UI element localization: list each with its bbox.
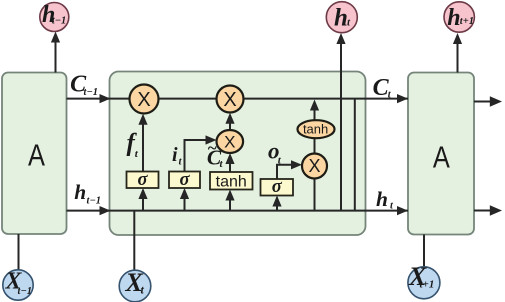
multiply node X2 (cell update) [217, 86, 244, 113]
wire h line up into sigma2 [180, 188, 189, 211]
tanh box (candidate) [210, 172, 253, 191]
node X(t) circle [119, 268, 151, 302]
label h(t-1) on wire [74, 180, 101, 207]
wire f gate: h line up into sigma1 [138, 188, 147, 211]
wire to h(t-1) output circle [51, 32, 60, 73]
multiply node X4 (output) [302, 154, 327, 179]
sigma box 3 (output gate) [261, 177, 294, 197]
svg-text:t−1: t−1 [52, 16, 67, 27]
wire h line [67, 210, 409, 212]
multiply node X1 (forget) [130, 85, 159, 114]
arrow h into right A [397, 206, 408, 215]
output arrow right A top [474, 96, 502, 107]
svg-text:tanh: tanh [303, 122, 328, 137]
label o(t) [268, 139, 282, 167]
block A right [408, 73, 474, 235]
label C-tilde(t) [207, 139, 224, 171]
wire h line up through X4 and tanh oval into C line [310, 100, 319, 211]
svg-text:X: X [223, 89, 236, 111]
wire o gate: sigma3 up and right into X4 [277, 160, 302, 179]
sigma box 1 (forget gate) [127, 170, 159, 190]
tanh oval [298, 120, 335, 138]
svg-text:X: X [224, 132, 235, 151]
svg-text:h: h [334, 5, 348, 32]
wire sigma1 up into X1 [138, 114, 147, 172]
wire to h(t+1) output circle [453, 33, 462, 73]
svg-text:t−1: t−1 [84, 87, 99, 98]
wire i gate: sigma2 up and right into X3 [185, 135, 217, 171]
arrow h into cell [100, 206, 111, 215]
wire X(t) input [133, 211, 135, 271]
node X(t-1) circle [3, 269, 33, 301]
wire X3 up into X2 [225, 113, 234, 130]
svg-text:t+1: t+1 [460, 16, 474, 27]
svg-text:t−1: t−1 [87, 196, 102, 207]
label i(t) [172, 144, 183, 168]
svg-text:σ: σ [180, 170, 191, 190]
arrow C into right A [397, 94, 408, 103]
svg-text:h: h [447, 5, 460, 31]
label h(t) on wire [376, 187, 394, 212]
wire X(t+1) input [423, 235, 425, 269]
label C(t-1) [70, 71, 98, 97]
svg-text:h: h [376, 187, 388, 211]
svg-text:i: i [172, 144, 178, 166]
svg-text:X: X [137, 89, 150, 111]
arrow C into cell [100, 94, 111, 103]
sigma box 2 (input gate) [169, 170, 200, 190]
svg-text:t−1: t−1 [18, 286, 33, 297]
node h(t+1) circle [444, 2, 474, 32]
label f(t) [127, 130, 139, 161]
node X(t+1) circle [408, 262, 440, 299]
svg-text:σ: σ [272, 177, 283, 197]
svg-text:σ: σ [138, 170, 149, 190]
svg-text:tanh: tanh [216, 174, 247, 191]
output arrow right A bottom [474, 205, 502, 216]
multiply node X3 (input x candidate) [217, 130, 244, 153]
svg-text:t+1: t+1 [420, 279, 435, 291]
wire h line up into tanh box [225, 190, 234, 211]
wire tanh box up into X3 [225, 153, 234, 172]
wire C line [67, 98, 409, 100]
svg-text:~: ~ [207, 139, 217, 158]
svg-text:X: X [308, 156, 320, 176]
wire X(t-1) input [18, 234, 20, 270]
svg-text:A: A [28, 138, 45, 173]
wire h line up into sigma3 [272, 196, 281, 211]
node h(t-1) circle [40, 2, 69, 32]
svg-text:h: h [74, 180, 86, 204]
wire h(t) output up from h line [336, 33, 345, 211]
LSTM cell block (middle) [110, 72, 366, 236]
wire C branch down (right side of cell) [354, 99, 356, 211]
svg-text:A: A [433, 140, 450, 175]
node h(t) circle [326, 2, 357, 33]
block A left [2, 73, 67, 235]
label C(t) [373, 75, 392, 101]
